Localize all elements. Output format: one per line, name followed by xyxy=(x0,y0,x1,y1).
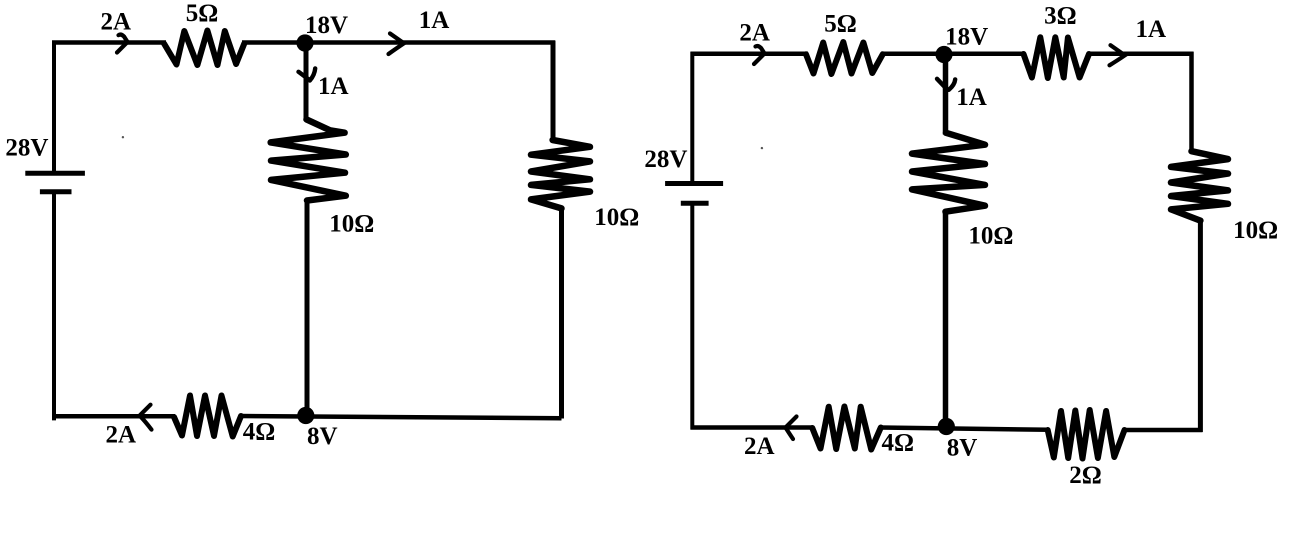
svg-text:28V: 28V xyxy=(5,135,48,162)
battery V1 28V long plate (left circuit) xyxy=(25,171,85,176)
wire bottom-right segment (left circuit) xyxy=(240,416,562,418)
node 8V dot (left circuit) xyxy=(297,407,314,424)
battery V2 28V long plate (right circuit) xyxy=(665,181,723,186)
wire bottom-middle segment (right circuit) xyxy=(879,428,1049,430)
resistor 3Ω (right circuit, top) xyxy=(1024,37,1090,78)
stray ink speck near battery (left circuit) xyxy=(122,136,124,138)
wire top-left segment (right circuit) xyxy=(691,52,809,57)
svg-text:2A: 2A xyxy=(101,9,132,36)
wire right vertical lower (right circuit) xyxy=(1198,219,1203,432)
svg-text:5Ω: 5Ω xyxy=(186,0,219,27)
svg-text:3Ω: 3Ω xyxy=(1044,2,1077,29)
wire top-left segment (left circuit) xyxy=(52,40,166,45)
resistor 2Ω (right circuit, bottom) xyxy=(1048,410,1125,459)
current arrow 1A middle branch (left circuit) xyxy=(299,68,316,80)
resistor 5Ω (left circuit, top) xyxy=(164,31,244,66)
node 18V dot (left circuit) xyxy=(296,34,313,51)
wire left vertical upper (right circuit) xyxy=(690,52,694,182)
svg-text:2Ω: 2Ω xyxy=(1069,462,1102,489)
svg-text:1A: 1A xyxy=(956,84,987,111)
wire top-right segment (right circuit) xyxy=(1087,52,1194,57)
svg-text:1A: 1A xyxy=(419,7,450,34)
stray ink speck near battery (right circuit) xyxy=(761,147,763,149)
svg-text:10Ω: 10Ω xyxy=(594,204,639,231)
wire left vertical lower (right circuit) xyxy=(690,205,694,430)
wire right vertical lower (left circuit) xyxy=(559,207,564,419)
resistor 4Ω (right circuit, bottom) xyxy=(812,407,881,450)
resistor 4Ω (left circuit, bottom) xyxy=(174,396,241,437)
current arrow 2A bottom (right circuit) xyxy=(786,417,797,440)
node 8V dot (right circuit) xyxy=(938,418,955,435)
resistor 10Ω middle (left circuit) xyxy=(271,119,346,200)
current arrow 2A top (right circuit) xyxy=(754,46,765,64)
svg-text:28V: 28V xyxy=(644,146,687,173)
svg-text:2A: 2A xyxy=(106,422,137,449)
current arrow 2A top (left circuit) xyxy=(117,35,128,53)
wire left vertical lower (left circuit) xyxy=(52,194,56,421)
wire middle branch upper (left circuit) xyxy=(304,43,309,121)
resistor 10Ω right (right circuit) xyxy=(1171,151,1228,220)
resistor 10Ω right (left circuit) xyxy=(531,140,590,208)
svg-text:1A: 1A xyxy=(1136,16,1167,43)
svg-text:2A: 2A xyxy=(744,433,775,460)
svg-text:8V: 8V xyxy=(307,423,338,450)
current arrow 1A top (right circuit) xyxy=(1110,45,1125,65)
svg-text:10Ω: 10Ω xyxy=(1233,217,1278,244)
svg-text:10Ω: 10Ω xyxy=(329,211,374,238)
wire right vertical upper (right circuit) xyxy=(1189,52,1194,152)
svg-text:18V: 18V xyxy=(305,12,348,39)
wire middle branch lower (right circuit) xyxy=(943,210,949,429)
wire right vertical upper (left circuit) xyxy=(551,41,556,142)
svg-text:4Ω: 4Ω xyxy=(882,429,915,456)
wire top-middle segment (right circuit) xyxy=(881,52,1025,57)
current arrow 2A bottom (left circuit) xyxy=(140,405,152,430)
wire bottom-right segment (right circuit) xyxy=(1123,428,1203,433)
wire middle branch lower (left circuit) xyxy=(305,199,310,417)
svg-text:8V: 8V xyxy=(947,435,978,462)
current arrow 1A middle branch (right circuit) xyxy=(937,79,955,90)
svg-text:1A: 1A xyxy=(318,73,349,100)
resistor 5Ω (right circuit, top) xyxy=(806,42,883,74)
battery V2 28V short plate (right circuit) xyxy=(681,201,709,206)
node 18V dot (right circuit) xyxy=(935,46,952,63)
svg-text:4Ω: 4Ω xyxy=(243,418,276,445)
wire top-middle segment (left circuit) xyxy=(242,40,555,45)
wire bottom-left segment (left circuit) xyxy=(52,414,175,419)
svg-text:5Ω: 5Ω xyxy=(824,11,857,38)
current arrow 1A top-right (left circuit) xyxy=(389,34,405,55)
wire bottom-left segment (right circuit) xyxy=(691,425,814,430)
svg-text:10Ω: 10Ω xyxy=(968,223,1013,250)
battery V1 28V short plate (left circuit) xyxy=(40,189,72,194)
resistor 10Ω middle (right circuit) xyxy=(912,133,985,212)
svg-text:18V: 18V xyxy=(945,24,988,51)
wire left vertical upper (left circuit) xyxy=(52,41,56,173)
wire middle branch upper (right circuit) xyxy=(943,54,949,135)
svg-text:2A: 2A xyxy=(739,19,770,46)
